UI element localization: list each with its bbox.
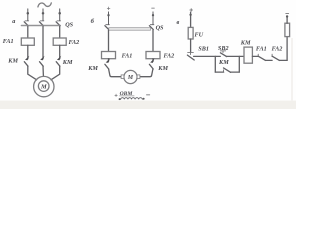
minus terminal sign bbox=[286, 13, 289, 15]
switch QS pole1 blade bbox=[105, 26, 109, 30]
svg-text:КМ: КМ bbox=[87, 65, 98, 72]
fuse FA1 bbox=[102, 52, 116, 59]
pushbutton SB2 actuator bbox=[220, 50, 225, 52]
plus terminal sign bbox=[107, 7, 110, 10]
wire FA1 to FA2 bbox=[266, 59, 273, 61]
fuse FA2 bbox=[146, 52, 160, 59]
fuse FA2 bbox=[53, 38, 66, 45]
wire pole2 fuse to contact bbox=[152, 59, 154, 62]
svg-text:ОВМ: ОВМ bbox=[120, 91, 134, 97]
coil KM bbox=[244, 47, 252, 63]
contact KM pole2 flick bbox=[40, 56, 44, 61]
wire phase1 to motor bbox=[28, 66, 37, 80]
node minus terminal bbox=[286, 15, 288, 17]
svg-text:КМ: КМ bbox=[218, 59, 229, 66]
wire phase1 to fuse bbox=[27, 26, 29, 38]
wire pole2 stub bbox=[152, 12, 154, 25]
field winding OVM terminal right bbox=[143, 98, 145, 100]
contact KM aux tick bbox=[223, 70, 225, 72]
wire branch riser left bbox=[214, 56, 216, 72]
plus terminal sign bbox=[190, 9, 193, 12]
switch QS pole2 tick bbox=[150, 24, 154, 26]
wire pole1 to fuse bbox=[108, 30, 110, 51]
svg-text:QS: QS bbox=[156, 25, 164, 32]
contact FA2 tick bbox=[271, 54, 273, 56]
field winding OVM terminal left bbox=[119, 98, 121, 100]
switch QS pole2 tick bbox=[40, 20, 44, 22]
svg-text:FU: FU bbox=[195, 31, 204, 38]
wire phase1 top stub bbox=[27, 9, 29, 21]
wire phase1 fuse to contact bbox=[27, 45, 29, 59]
svg-text:FA2: FA2 bbox=[272, 45, 283, 52]
wire phase3 top stub bbox=[59, 9, 61, 21]
node phase1 terminal bbox=[27, 12, 30, 15]
contact KM pole1 flick bbox=[106, 58, 110, 63]
wire FU to SB1 bbox=[190, 39, 192, 52]
svg-text:КМ: КМ bbox=[157, 65, 168, 72]
contact KM pole2 blade bbox=[149, 64, 153, 69]
contact KM pole3 blade bbox=[56, 62, 60, 66]
wire main run 1 bbox=[194, 55, 221, 57]
wire pole1 to motor brush bbox=[109, 69, 122, 77]
field winding OVM plus sign bbox=[115, 94, 118, 97]
contact KM pole1 blade bbox=[105, 64, 109, 69]
wire riser right bbox=[286, 37, 288, 61]
svg-text:FA1: FA1 bbox=[3, 38, 14, 45]
wire FA2 to riser bbox=[279, 59, 287, 61]
AC tilde symbol bbox=[38, 3, 51, 7]
contact KM pole1 blade bbox=[24, 62, 28, 66]
svg-text:FA1: FA1 bbox=[256, 45, 267, 52]
motor brush left bbox=[121, 75, 124, 79]
node pole2 terminal bbox=[152, 14, 154, 16]
wire fuse to minus bbox=[286, 17, 288, 24]
fuse FU bbox=[188, 27, 193, 39]
contact KM pole3 flick bbox=[57, 56, 61, 61]
field winding OVM minus sign bbox=[146, 94, 149, 96]
svg-text:а: а bbox=[12, 18, 15, 25]
fuse FA1 bbox=[21, 38, 34, 45]
wire branch riser right bbox=[238, 56, 240, 72]
switch QS pole1 blade bbox=[24, 22, 28, 26]
motor brush right bbox=[137, 75, 140, 79]
switch QS pole3 blade bbox=[56, 22, 60, 26]
contact KM pole1 flick bbox=[25, 56, 29, 61]
wire coil to FA1 bbox=[252, 55, 258, 57]
svg-text:КМ: КМ bbox=[7, 58, 18, 65]
contact FA1 tick bbox=[257, 54, 259, 56]
svg-text:FA2: FA2 bbox=[164, 52, 175, 59]
wire branch bottom left bbox=[215, 71, 223, 73]
wire phase2 to motor bbox=[42, 66, 44, 76]
switch QS pole3 tick bbox=[57, 20, 61, 22]
wire phase3 to motor bbox=[51, 66, 60, 80]
svg-text:М: М bbox=[40, 84, 47, 91]
switch QS pole1 tick bbox=[25, 20, 29, 22]
pushbutton SB1 actuator bbox=[188, 52, 194, 54]
contact FA1 blade bbox=[258, 56, 265, 60]
svg-text:SB2: SB2 bbox=[218, 45, 229, 52]
pushbutton SB1 blade bbox=[187, 55, 194, 60]
wire phase3 fuse to contact bbox=[59, 45, 61, 59]
fuse FU right bbox=[285, 23, 290, 36]
svg-text:КМ: КМ bbox=[240, 39, 251, 46]
contact FA2 blade bbox=[272, 56, 279, 60]
motor M inner circle bbox=[38, 81, 49, 92]
node pole1 terminal bbox=[107, 14, 109, 16]
pushbutton SB2 blade bbox=[220, 53, 226, 57]
bottom gray band bbox=[0, 101, 296, 109]
contact KM pole2 flick bbox=[150, 58, 154, 63]
switch QS linkage bar bbox=[109, 28, 151, 31]
wire phase2 top stub bbox=[42, 9, 44, 21]
svg-text:FA1: FA1 bbox=[122, 52, 133, 59]
svg-text:в: в bbox=[177, 19, 180, 26]
wire pole1 stub bbox=[108, 12, 110, 25]
wire pole1 fuse to contact bbox=[108, 59, 110, 62]
wire main run 2 bbox=[226, 55, 244, 57]
wire branch bottom right bbox=[230, 71, 239, 73]
switch QS pole2 blade bbox=[39, 22, 43, 26]
motor M outer circle bbox=[34, 76, 54, 96]
node phase2 terminal bbox=[42, 12, 45, 15]
svg-text:FA2: FA2 bbox=[69, 39, 80, 46]
wire plus stub bbox=[190, 12, 192, 27]
switch QS pole1 tick bbox=[106, 24, 110, 26]
svg-text:QS: QS bbox=[65, 21, 73, 28]
wire pole2 to motor brush bbox=[140, 69, 153, 77]
switch QS pole2 blade bbox=[149, 26, 153, 30]
svg-text:М: М bbox=[127, 75, 134, 81]
contact KM aux blade bbox=[224, 68, 231, 72]
node plus terminal bbox=[189, 14, 191, 16]
wire phase2 through bbox=[42, 26, 44, 59]
switch QS linkage bar bbox=[21, 25, 60, 27]
wire phase3 to fuse bbox=[59, 26, 61, 38]
contact KM pole2 blade bbox=[40, 62, 44, 66]
faint page border line right bbox=[291, 38, 293, 101]
motor M circle bbox=[124, 70, 137, 83]
wire pole2 to fuse bbox=[152, 30, 154, 51]
minus terminal sign bbox=[152, 7, 155, 9]
field winding OVM coil bbox=[121, 98, 143, 100]
svg-text:SB1: SB1 bbox=[198, 46, 209, 53]
node phase3 terminal bbox=[58, 12, 61, 15]
svg-text:КМ: КМ bbox=[62, 59, 73, 66]
label OVM underline bbox=[120, 95, 135, 97]
